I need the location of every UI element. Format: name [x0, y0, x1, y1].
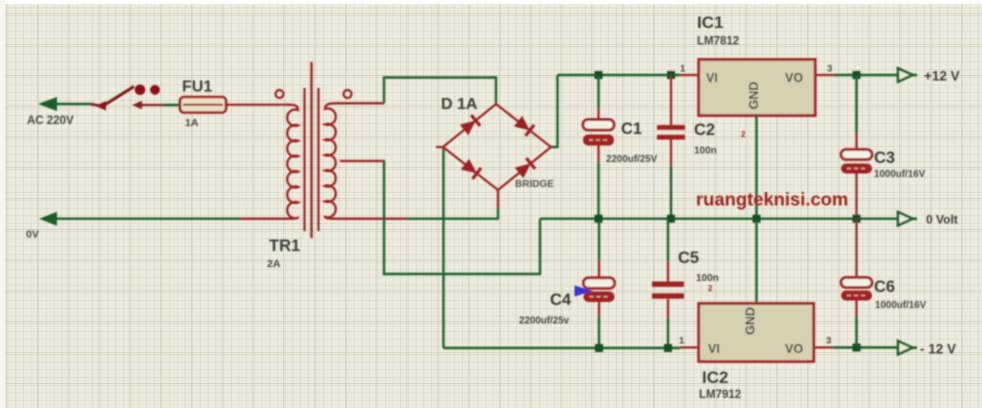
capacitor C4 2200uf/25v electrolytic [584, 278, 615, 302]
svg-text:1: 1 [680, 64, 686, 75]
op IC2 LM7912 body [699, 304, 814, 362]
svg-text:2A: 2A [267, 258, 281, 270]
capacitor C6 1000uf/16V electrolytic [841, 278, 872, 301]
node junction C5 bottom [664, 344, 672, 352]
node junction C2 top [667, 71, 675, 79]
svg-text:2200uf/25v: 2200uf/25v [519, 316, 570, 327]
bridge diode D1 top-left [460, 115, 480, 135]
svg-text:3: 3 [826, 336, 831, 347]
capacitor C5 leads [667, 219, 669, 348]
wire +12V output [834, 74, 899, 76]
op IC1 LM7812 body [699, 60, 816, 116]
wire secondary bottom to bridge AC2 [408, 217, 499, 219]
svg-text:VI: VI [708, 342, 720, 356]
wire IC1 GND to 0V rail [755, 116, 757, 220]
svg-text:C2: C2 [694, 121, 715, 139]
svg-text:AC 220V: AC 220V [27, 115, 74, 127]
svg-text:IC1: IC1 [697, 13, 723, 32]
svg-text:1: 1 [679, 336, 685, 347]
svg-text:VO: VO [785, 71, 803, 85]
terminal AC live arrow [38, 97, 94, 111]
node junction C1 bottom C4 top [595, 215, 603, 223]
capacitor C2 leads [670, 75, 672, 219]
svg-text:- 12 V: - 12 V [920, 342, 956, 357]
node junction C3 C6 [853, 215, 861, 223]
svg-text:BRIDGE: BRIDGE [515, 179, 554, 190]
svg-text:2: 2 [741, 130, 746, 139]
svg-text:+12 V: +12 V [924, 69, 960, 84]
svg-text:2: 2 [708, 284, 713, 293]
IC2 pin 1 stub [680, 346, 700, 348]
bridge left pin stub [436, 146, 444, 148]
transformer TR1 polarity dot left [276, 90, 284, 98]
bridge diode D3 bottom-left [461, 159, 481, 179]
bridge diode D2 top-right [514, 116, 534, 136]
terminal 0V arrow [39, 212, 241, 226]
switch contact dot 1 [135, 85, 146, 96]
IC1 pin 3 stub [815, 74, 834, 76]
capacitor C1 2200uf/25V electrolytic [583, 120, 614, 146]
svg-text:C4: C4 [550, 291, 572, 309]
wire -raw rail [444, 347, 681, 349]
svg-text:ruangteknisi.com: ruangteknisi.com [696, 189, 848, 210]
wire IC2 GND to 0V rail [755, 219, 757, 304]
IC1 pin 1 stub [680, 74, 700, 76]
cursor blue marker [575, 286, 594, 297]
wire 0V rail [540, 217, 899, 219]
wire fuse to transformer primary [226, 104, 290, 106]
svg-text:1A: 1A [185, 117, 199, 129]
svg-text:VI: VI [706, 71, 718, 85]
svg-text:2200uf/25V: 2200uf/25V [606, 154, 658, 165]
svg-text:3: 3 [827, 64, 832, 75]
svg-text:FU1: FU1 [182, 79, 212, 96]
node junction C1 top [595, 71, 603, 79]
svg-text:C5: C5 [678, 249, 699, 267]
transformer TR1 center tap lead [340, 160, 385, 162]
wire switch to fuse [141, 104, 181, 106]
node junction C2 bottom C5 top [667, 215, 675, 223]
switch contact dot 2 [150, 85, 160, 95]
svg-text:0 Volt: 0 Volt [926, 213, 958, 227]
transformer TR1 polarity dot right [344, 90, 352, 98]
transformer TR1 primary winding [240, 105, 298, 219]
wire bridge minus down [442, 148, 444, 348]
svg-text:GND: GND [747, 82, 761, 110]
svg-text:VO: VO [785, 342, 803, 356]
node junction C3 top [853, 71, 861, 79]
wire bridge bottom lead [497, 190, 499, 219]
switch right contact arrowhead [132, 101, 142, 110]
svg-text:LM7812: LM7812 [697, 36, 739, 48]
transformer TR1 secondary winding [325, 103, 410, 218]
svg-text:C6: C6 [874, 278, 895, 296]
capacitor C4 leads [598, 219, 600, 348]
bridge diode D4 bottom-right [515, 158, 535, 178]
wire secondary top to bridge AC1 [384, 78, 496, 106]
svg-text:D 1A: D 1A [441, 96, 478, 113]
capacitor C5 100n [652, 282, 684, 299]
capacitor C6 leads [855, 219, 857, 348]
svg-text:0V: 0V [26, 229, 39, 241]
svg-text:LM7912: LM7912 [699, 389, 741, 401]
svg-text:IC2: IC2 [702, 368, 728, 387]
bridge rectifier D 1A diamond [443, 104, 551, 190]
svg-text:1000uf/16V: 1000uf/16V [874, 169, 926, 180]
node junction C4 bottom [595, 344, 603, 352]
svg-text:C1: C1 [621, 120, 642, 138]
capacitor C2 100n [657, 125, 685, 140]
IC2 pin 3 stub [814, 346, 833, 348]
node junction C6 bottom [853, 344, 861, 352]
svg-text:C3: C3 [874, 149, 895, 167]
svg-text:1000uf/16V: 1000uf/16V [875, 300, 927, 311]
capacitor C3 1000uf/16V electrolytic [841, 150, 872, 174]
fuse FU1 [179, 97, 228, 113]
wire switch pole stub [91, 105, 102, 106]
terminal 0 Volt arrow [898, 212, 917, 225]
svg-text:GND: GND [744, 307, 758, 335]
terminal +12V arrow [898, 68, 917, 81]
wire center tap to 0V rail [384, 161, 540, 275]
wire bridge plus to +raw rail [550, 75, 558, 147]
svg-text:100n: 100n [696, 273, 719, 284]
capacitor C1 leads [597, 75, 599, 219]
wire +raw rail [558, 74, 681, 76]
transformer TR1 core [305, 62, 319, 238]
wire -12V output [833, 346, 899, 348]
node junction GND pins [753, 215, 761, 223]
capacitor C3 leads [855, 75, 857, 219]
svg-text:TR1: TR1 [269, 237, 300, 255]
svg-text:100n: 100n [694, 146, 717, 157]
terminal -12V arrow [898, 341, 917, 354]
switch SW1 lever [95, 87, 134, 111]
